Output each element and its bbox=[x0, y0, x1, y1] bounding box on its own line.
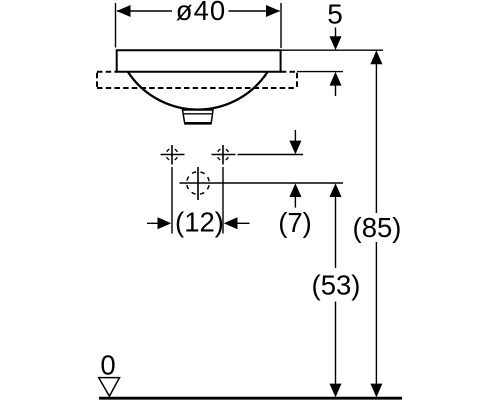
dimension (12) extension line left bbox=[171, 167, 173, 234]
dimension ø40 extension line left bbox=[115, 3, 117, 48]
svg-text:(85): (85) bbox=[353, 212, 402, 243]
counter level reference line bbox=[297, 71, 343, 73]
dimension (7) up arrow bbox=[289, 183, 301, 207]
tap hole level reference line bbox=[238, 154, 304, 156]
drain hole dashed circle bbox=[187, 172, 210, 195]
drain outlet bbox=[183, 110, 214, 123]
svg-text:(7): (7) bbox=[278, 207, 312, 238]
svg-text:(53): (53) bbox=[312, 269, 361, 300]
drain hole vertical centerline bbox=[197, 167, 199, 200]
dimension ø40 left arrowhead bbox=[117, 5, 131, 17]
countertop dashed outline bbox=[97, 72, 297, 88]
dimension 5 down arrow bbox=[330, 28, 342, 51]
dimension ø40 right arrowhead bbox=[266, 5, 280, 17]
floor line bbox=[99, 397, 402, 400]
basin bowl bbox=[128, 72, 268, 110]
drain level reference line bbox=[180, 182, 344, 184]
basin rim bbox=[117, 50, 281, 72]
dimension (12) right arrow bbox=[224, 217, 250, 229]
dimension 5 up arrow bbox=[330, 72, 342, 96]
dimension (53) line bbox=[330, 183, 342, 397]
dimension (12) left arrow bbox=[147, 217, 171, 229]
svg-text:0: 0 bbox=[100, 349, 115, 380]
svg-text:(12): (12) bbox=[175, 207, 224, 238]
dimension ø40 extension line right bbox=[280, 3, 282, 48]
datum triangle bbox=[99, 378, 120, 397]
rim top reference line bbox=[281, 49, 383, 51]
svg-text:5: 5 bbox=[327, 0, 343, 29]
dimension (12) extension line right bbox=[222, 167, 224, 234]
dimension (7) down arrow bbox=[289, 130, 301, 154]
tap hole right crosshair bbox=[212, 145, 236, 165]
dimension ø40 line bbox=[117, 10, 280, 12]
tap hole left crosshair bbox=[161, 145, 185, 165]
dimension (85) line bbox=[370, 50, 382, 397]
svg-text:ø40: ø40 bbox=[176, 0, 226, 26]
